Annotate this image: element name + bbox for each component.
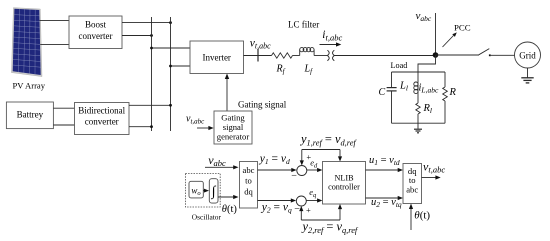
svg-text:+: + xyxy=(306,205,311,215)
wire bidirectional to bus2 xyxy=(129,104,171,106)
junction dot xyxy=(169,104,172,107)
wire Lf to transformer xyxy=(314,55,327,57)
wire vabc into abc-dq xyxy=(205,165,239,169)
svg-text:Bidirectional: Bidirectional xyxy=(78,105,125,115)
load loop right rail upper xyxy=(444,72,446,87)
wire u1 to dq-abc xyxy=(366,168,404,172)
svg-text:−: − xyxy=(291,171,297,182)
svg-text:abc: abc xyxy=(406,184,418,194)
svg-text:PV Array: PV Array xyxy=(13,81,46,91)
svg-text:−: − xyxy=(294,204,300,215)
resistor Rl xyxy=(416,103,420,114)
wire u2 to dq-abc xyxy=(366,196,404,200)
dq to abc box xyxy=(403,164,422,204)
wire Ll to Rl xyxy=(417,94,419,103)
wire vabc stub xyxy=(435,13,437,53)
wire PV to boost (top) xyxy=(40,19,69,21)
wire bidirectional to bus1 xyxy=(129,126,152,128)
wire battery to bidirectional (top) xyxy=(53,107,74,109)
wire battery to bidirectional (bottom) xyxy=(53,124,74,126)
wire integrator to abc-dq xyxy=(218,195,239,199)
abc to dq box xyxy=(240,162,258,209)
PV array panel xyxy=(11,7,42,78)
load loop right rail lower xyxy=(444,101,446,123)
Boost converter box xyxy=(69,16,122,49)
svg-text:Oscillator: Oscillator xyxy=(192,213,222,222)
load loop bottom rail xyxy=(392,122,446,124)
y2ref feed line xyxy=(299,204,342,220)
y1ref feed line xyxy=(300,150,342,166)
svg-text:Gating signal: Gating signal xyxy=(238,99,287,109)
PCC pointer arrow xyxy=(443,32,457,47)
load loop top rail xyxy=(392,71,446,73)
resistor Rf xyxy=(272,53,293,58)
DC bus rail 1 xyxy=(151,17,153,131)
grid ground xyxy=(521,68,533,83)
wire vt,abc into gating box xyxy=(197,126,214,130)
svg-text:Grid: Grid xyxy=(519,50,536,60)
svg-text:Battrey: Battrey xyxy=(17,110,44,120)
Gating signal generator box xyxy=(214,111,252,144)
NLIB controller box xyxy=(323,162,366,205)
wo box xyxy=(189,181,203,198)
wire summer1 to NLIB xyxy=(307,168,323,172)
current arrow it,abc xyxy=(320,29,343,47)
wire Rl to ground xyxy=(417,114,419,129)
wire boost to bus1 xyxy=(122,35,152,37)
inductor Lf xyxy=(300,48,314,56)
junction dot xyxy=(150,125,153,128)
integrator box xyxy=(209,179,218,203)
switch contact xyxy=(489,54,491,56)
gating arrow into inverter xyxy=(225,74,229,112)
wire Rf to Lf xyxy=(293,55,300,57)
svg-text:converter: converter xyxy=(79,31,113,41)
output arrow vt,abc xyxy=(422,175,441,179)
load ground xyxy=(414,129,422,133)
node vt,abc measurement tick xyxy=(257,49,259,62)
wire bus1 to inverter xyxy=(152,47,191,49)
svg-text:θ(t): θ(t) xyxy=(222,204,238,215)
wire node to switch xyxy=(436,54,479,56)
wire summer2 to NLIB xyxy=(306,198,322,202)
Battery box xyxy=(6,102,53,129)
svg-text:generator: generator xyxy=(217,131,250,141)
wire bus2 to inverter xyxy=(171,65,191,67)
svg-text:converter: converter xyxy=(85,116,119,126)
oscillator dashed box xyxy=(185,174,220,208)
wire transformer to PCC node xyxy=(335,55,436,57)
transformer coupling xyxy=(327,50,334,61)
wire boost to bus2 xyxy=(122,22,171,24)
svg-text:abc: abc xyxy=(243,165,255,175)
junction dot xyxy=(169,21,172,24)
load loop left rail lower xyxy=(391,91,393,123)
wire node to load (jog) xyxy=(418,55,436,72)
summing junction 2 xyxy=(296,196,306,206)
node PCC dot xyxy=(433,52,439,58)
svg-text:LC filter: LC filter xyxy=(288,20,319,30)
svg-text:controller: controller xyxy=(328,183,360,192)
svg-text:R: R xyxy=(449,87,457,98)
capacitor C xyxy=(387,88,397,91)
resistor R xyxy=(443,87,448,101)
switch blade xyxy=(478,49,489,56)
svg-text:Inverter: Inverter xyxy=(202,52,230,62)
svg-text:y1 = vd: y1 = vd xyxy=(259,153,290,166)
junction dot xyxy=(150,34,153,37)
svg-text:NLIB: NLIB xyxy=(334,174,354,183)
svg-text:dq: dq xyxy=(244,186,253,196)
junction dot xyxy=(169,65,172,68)
Grid circle xyxy=(515,42,541,68)
wire PV to boost (bottom) xyxy=(40,44,69,46)
DC bus rail 2 xyxy=(170,17,172,131)
Bidirectional converter box xyxy=(75,103,130,135)
summing junction 1 xyxy=(297,166,307,176)
wire y2 to summer 2 xyxy=(258,198,297,202)
svg-text:Boost: Boost xyxy=(85,19,107,29)
theta(t) arrow into dq-abc xyxy=(409,204,413,231)
svg-text:to: to xyxy=(245,176,252,186)
junction dot xyxy=(150,47,153,50)
Inverter box xyxy=(190,41,244,74)
svg-text:θ(t): θ(t) xyxy=(414,209,430,221)
svg-text:Load: Load xyxy=(391,61,408,70)
wire switch to grid xyxy=(491,54,515,56)
svg-text:y2 = vq: y2 = vq xyxy=(261,202,292,215)
svg-text:C: C xyxy=(379,87,386,98)
wire inverter to Rf xyxy=(244,55,272,57)
svg-text:PCC: PCC xyxy=(454,22,471,32)
load loop left rail upper xyxy=(391,72,393,87)
inductor Ll xyxy=(414,72,418,94)
arrow wo to integrator xyxy=(203,189,209,193)
wire y1 to summer 1 xyxy=(258,168,297,172)
